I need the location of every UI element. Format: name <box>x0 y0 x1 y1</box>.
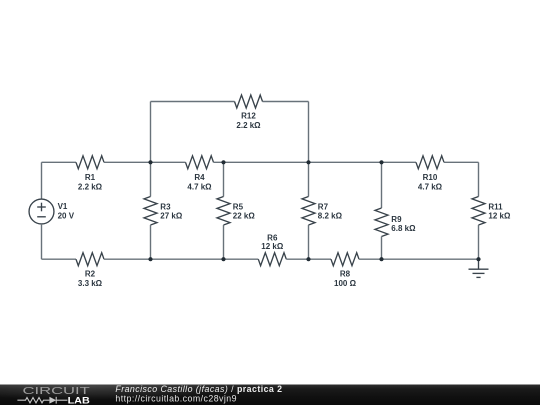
wire: rail x308 top (R12 right edge) <box>308 102 310 163</box>
svg-text:2.2 kΩ: 2.2 kΩ <box>236 121 261 130</box>
resistor R3 <box>144 197 157 226</box>
resistor R9 <box>375 208 388 237</box>
wire: bottom row seg D (R8 to ground node) <box>359 258 479 260</box>
svg-text:R8: R8 <box>340 269 351 278</box>
svg-text:20 V: 20 V <box>58 211 75 220</box>
wire: main row seg A (left edge to R1) <box>42 161 77 163</box>
svg-text:R4: R4 <box>194 173 205 182</box>
footer bar <box>0 385 540 405</box>
wire: main row seg D (R10 to right edge) <box>444 161 479 163</box>
CircuitLab logo squiggle (resistor + diode) <box>17 397 67 404</box>
resistor R10 <box>416 156 444 169</box>
svg-text:12 kΩ: 12 kΩ <box>261 242 284 251</box>
resistor R2 <box>76 253 104 266</box>
wire: top row right segment <box>263 101 309 103</box>
svg-text:22 kΩ: 22 kΩ <box>233 211 256 220</box>
junction dots bottom row <box>148 257 152 261</box>
svg-text:V1: V1 <box>58 202 68 211</box>
wire: R7 top lead <box>308 162 310 196</box>
svg-text:http://circuitlab.com/c28vjn9: http://circuitlab.com/c28vjn9 <box>115 393 237 403</box>
resistor R5 <box>217 197 230 226</box>
voltage source V1 <box>29 199 54 224</box>
wire: R5 top lead <box>223 162 225 196</box>
svg-text:R7: R7 <box>318 202 329 211</box>
svg-text:R10: R10 <box>423 173 438 182</box>
wire: R3 top lead <box>150 162 152 196</box>
wire: left rail lower (V1 bottom to bottom row) <box>41 224 43 259</box>
svg-text:4.7 kΩ: 4.7 kΩ <box>418 183 443 192</box>
svg-text:3.3 kΩ: 3.3 kΩ <box>78 279 103 288</box>
wire: R9 top lead <box>381 162 383 208</box>
wire: R7 bottom lead <box>308 225 310 259</box>
wire: R11 bottom lead <box>478 225 480 259</box>
svg-text:LAB: LAB <box>68 396 90 405</box>
svg-text:R9: R9 <box>391 215 402 224</box>
wire: R11 top lead <box>478 162 480 196</box>
svg-text:8.2 kΩ: 8.2 kΩ <box>318 211 343 220</box>
wire: R3 bottom lead <box>150 225 152 259</box>
svg-text:12 kΩ: 12 kΩ <box>488 211 511 220</box>
svg-text:4.7 kΩ: 4.7 kΩ <box>187 183 212 192</box>
wire: main row seg B (R1 to R4) <box>104 161 186 163</box>
wire: top row left segment <box>151 101 235 103</box>
wire: R9 bottom lead <box>381 237 383 260</box>
wire: bottom row seg B (R2 to R6) <box>104 258 258 260</box>
resistor R4 <box>186 156 214 169</box>
resistor R1 <box>76 156 104 169</box>
wire: main row seg C (R4 to R10) <box>214 161 417 163</box>
svg-text:R1: R1 <box>85 173 96 182</box>
svg-text:R6: R6 <box>267 233 278 242</box>
ground <box>469 259 489 277</box>
svg-text:27 kΩ: 27 kΩ <box>160 211 183 220</box>
wire: R5 bottom lead <box>223 225 225 259</box>
svg-text:100 Ω: 100 Ω <box>334 279 357 288</box>
resistor R7 <box>302 197 315 226</box>
svg-text:R12: R12 <box>241 112 256 121</box>
wire: left rail upper (to V1 top) <box>41 162 43 199</box>
svg-text:R2: R2 <box>85 269 96 278</box>
resistor R8 <box>331 253 359 266</box>
svg-text:R3: R3 <box>160 202 171 211</box>
svg-text:Francisco Castillo (jfacas) /: Francisco Castillo (jfacas) / practica 2 <box>115 384 282 394</box>
svg-text:6.8 kΩ: 6.8 kΩ <box>391 224 416 233</box>
wire: bottom row seg A (left edge to R2) <box>42 258 77 260</box>
svg-text:R5: R5 <box>233 202 244 211</box>
svg-text:2.2 kΩ: 2.2 kΩ <box>78 183 103 192</box>
wire: bottom row seg C (R6 to R8) <box>286 258 331 260</box>
resistor R6 <box>258 253 286 266</box>
junction dots main row <box>148 160 152 164</box>
resistor R12 <box>235 95 263 108</box>
resistor R11 <box>472 197 485 226</box>
svg-text:R11: R11 <box>488 202 503 211</box>
wire: rail x151 top (R12 left edge) <box>150 102 152 163</box>
